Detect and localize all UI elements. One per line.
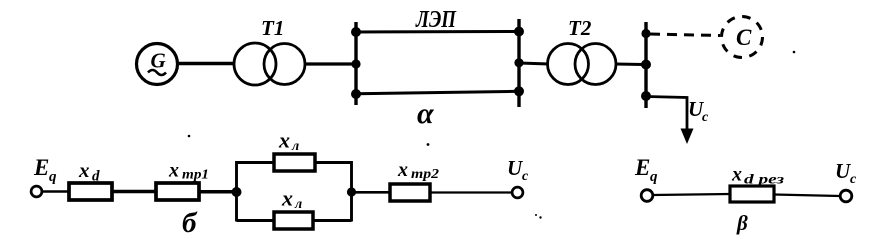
node: parallel right junction <box>347 187 356 196</box>
wire T1 to left bus <box>305 62 356 65</box>
label xl bottom <box>281 186 302 213</box>
wire: left parallel riser <box>235 161 238 222</box>
resistor xtr1 <box>156 183 199 200</box>
wire xd rez to Uc <box>774 195 840 197</box>
wire G to T1 <box>177 62 235 66</box>
speck <box>539 216 541 218</box>
wire xtr1 to node <box>199 190 238 194</box>
svg-text:x: x <box>168 160 179 182</box>
label Eq <box>33 155 57 185</box>
resistor xd rez <box>730 186 774 202</box>
generator G1 <box>137 44 178 85</box>
svg-text:x: x <box>281 186 293 211</box>
label Uc <box>688 97 709 125</box>
svg-text:β: β <box>736 211 748 235</box>
wire T2 to system bus <box>615 63 646 67</box>
wire Eq to xd <box>42 190 70 193</box>
svg-text:E: E <box>33 155 49 180</box>
svg-text:α: α <box>417 97 434 130</box>
speck <box>188 135 191 138</box>
wire node to xtr2 <box>352 191 391 194</box>
svg-text:d: d <box>92 169 100 185</box>
wire: line circuit 1 (top) <box>356 30 519 34</box>
svg-text:c: c <box>522 169 529 184</box>
label Uc (circuit в) <box>835 159 857 187</box>
label xtr1 <box>168 160 209 183</box>
resistor xl (top) <box>274 154 315 171</box>
wire xd to xtr1 <box>112 190 156 194</box>
svg-text:б: б <box>182 207 198 239</box>
transformer T1 <box>234 43 305 85</box>
speck <box>793 51 796 54</box>
wire: right parallel riser <box>350 161 353 222</box>
svg-text:л: л <box>294 197 302 212</box>
label xd <box>78 158 100 185</box>
resistor xd <box>69 183 112 200</box>
svg-text:T2: T2 <box>568 16 592 40</box>
node: parallel left junction <box>232 187 242 197</box>
wire Uc tap <box>646 97 687 132</box>
wire: line circuit 2 (bottom) <box>356 91 519 93</box>
terminal Uc (circuit б) <box>512 187 523 198</box>
speck <box>427 143 430 146</box>
terminal Eq (circuit б) <box>31 186 42 197</box>
speck <box>535 214 537 216</box>
system source C <box>722 17 763 58</box>
svg-text:T1: T1 <box>261 16 284 40</box>
label Uc (circuit б) <box>507 156 529 184</box>
terminal Uc (circuit в) <box>840 190 852 202</box>
svg-text:q: q <box>49 169 57 185</box>
wire right bus to T2 <box>519 63 549 64</box>
svg-text:q: q <box>650 169 658 185</box>
wire (dashed) bus to system C <box>650 34 720 36</box>
label xl top <box>278 128 299 155</box>
wire: top branch <box>237 161 352 164</box>
svg-text:x: x <box>78 158 90 182</box>
terminal Eq (circuit в) <box>641 190 653 202</box>
svg-text:x: x <box>731 164 742 186</box>
svg-text:л: л <box>291 139 299 154</box>
svg-text:x: x <box>278 128 290 153</box>
svg-text:ЛЭП: ЛЭП <box>415 7 457 33</box>
label Eq (circuit в) <box>634 155 658 185</box>
arrow Uc <box>681 129 694 145</box>
svg-text:c: c <box>850 172 857 187</box>
label xd rez <box>731 164 785 188</box>
resistor xtr2 <box>390 184 430 201</box>
svg-text:C: C <box>736 25 752 50</box>
node: left line bus <box>351 22 361 105</box>
transformer T2 <box>548 44 617 85</box>
svg-text:E: E <box>634 155 650 180</box>
svg-text:c: c <box>702 110 709 125</box>
wire Eq to xd rez <box>653 194 730 195</box>
node: right line bus <box>514 19 524 107</box>
svg-text:тр1: тр1 <box>182 168 209 183</box>
svg-text:x: x <box>397 159 408 181</box>
resistor xl (bottom) <box>274 212 313 229</box>
svg-text:d рез: d рез <box>744 173 785 188</box>
node: system bus <box>641 22 651 108</box>
wire: bottom branch <box>237 219 352 222</box>
label xtr2 <box>397 159 439 182</box>
svg-text:тр2: тр2 <box>411 167 439 182</box>
wire xtr2 to Uc <box>430 191 512 193</box>
